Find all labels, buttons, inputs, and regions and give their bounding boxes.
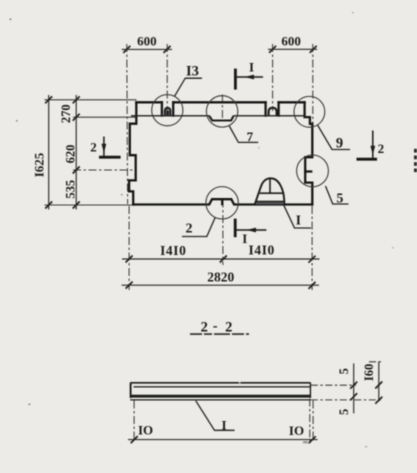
svg-text:2820: 2820: [207, 270, 234, 285]
svg-text:5: 5: [337, 409, 351, 415]
svg-text:2: 2: [90, 139, 97, 154]
svg-text:I: I: [221, 417, 226, 432]
svg-text:600: 600: [281, 34, 301, 49]
svg-text:I60: I60: [362, 364, 376, 381]
svg-text:270: 270: [59, 104, 73, 123]
svg-text:2: 2: [186, 222, 193, 237]
svg-text:I4I0: I4I0: [160, 243, 186, 258]
svg-text:I: I: [296, 212, 301, 227]
svg-text:I3: I3: [186, 64, 199, 80]
svg-text:535: 535: [63, 180, 77, 199]
svg-text:2: 2: [378, 141, 385, 156]
svg-text:620: 620: [63, 145, 77, 164]
svg-text:9: 9: [336, 135, 343, 151]
svg-text:I: I: [249, 60, 254, 75]
svg-text:5: 5: [337, 368, 351, 374]
svg-text:-: -: [213, 318, 218, 334]
svg-text:I4I0: I4I0: [248, 242, 274, 257]
svg-text:2: 2: [201, 320, 208, 336]
svg-text:2: 2: [225, 320, 232, 336]
svg-text:IO: IO: [138, 423, 153, 438]
svg-text:600: 600: [137, 34, 157, 49]
svg-text:I625: I625: [31, 152, 46, 177]
svg-text:7: 7: [247, 129, 254, 144]
svg-text:5: 5: [336, 191, 343, 206]
svg-text:IO: IO: [289, 423, 304, 438]
svg-text:I: I: [242, 231, 247, 246]
